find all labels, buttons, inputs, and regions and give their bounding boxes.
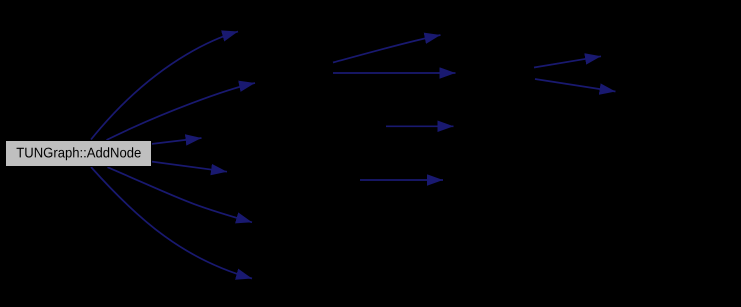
svg-text:TUNGraph::AddNode: TUNGraph::AddNode (16, 144, 141, 160)
